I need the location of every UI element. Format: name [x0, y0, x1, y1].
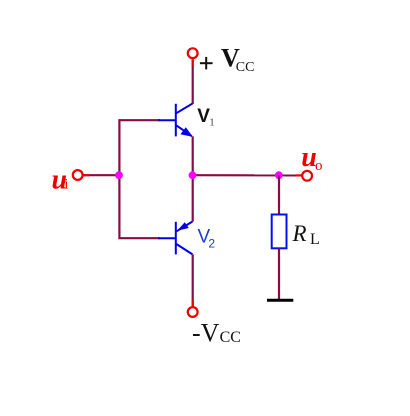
wire output horizontal	[193, 174, 302, 176]
svg-text:i: i	[64, 177, 68, 193]
label Vcc (positive supply)	[221, 43, 254, 75]
wire resistor to ground	[278, 248, 280, 299]
terminal -Vcc	[188, 307, 198, 317]
label ui	[52, 164, 69, 195]
wire red stub right of input terminal	[83, 174, 89, 176]
svg-text:o: o	[315, 158, 323, 174]
terminal output	[302, 171, 312, 181]
wire load node down to resistor	[278, 175, 280, 214]
junction input node	[115, 171, 123, 179]
wire base bus (V1 base to V2 base)	[119, 120, 160, 238]
resistor RL	[272, 215, 287, 249]
label V2	[198, 227, 216, 251]
wire input from terminal to base bus	[84, 174, 120, 176]
terminal +Vcc	[188, 48, 198, 58]
svg-text:R: R	[292, 221, 307, 246]
label uo	[301, 142, 322, 174]
label V1	[197, 106, 214, 128]
wire red stub below +Vcc terminal	[192, 59, 194, 66]
arrow V2 emitter (PNP, pointing in)	[177, 222, 189, 231]
svg-text:2: 2	[208, 237, 215, 251]
svg-text:CC: CC	[236, 60, 255, 75]
wire V1 emitter down to output node	[192, 136, 194, 175]
wire +Vcc supply to V1 collector	[192, 60, 194, 104]
svg-text:-V: -V	[192, 319, 220, 348]
transistor V2 (PNP)	[158, 222, 193, 255]
wire red stub above -Vcc terminal	[192, 300, 194, 307]
label + (plus sign)	[200, 57, 213, 70]
wire red stub left of output terminal	[296, 174, 302, 176]
wire V2 collector to -Vcc terminal	[192, 254, 194, 306]
svg-text:L: L	[310, 231, 320, 248]
svg-text:1: 1	[209, 116, 215, 128]
transistor V1 (NPN)	[158, 104, 193, 137]
terminal input	[73, 170, 83, 180]
label RL	[292, 221, 320, 248]
wire output node to V2 emitter	[192, 175, 194, 221]
label -Vcc (negative supply)	[192, 319, 241, 348]
ground	[267, 299, 293, 302]
arrow V1 emitter (NPN, pointing out)	[180, 127, 193, 137]
junction load node	[275, 171, 283, 179]
junction emitter node	[189, 171, 197, 179]
svg-text:CC: CC	[220, 329, 241, 346]
